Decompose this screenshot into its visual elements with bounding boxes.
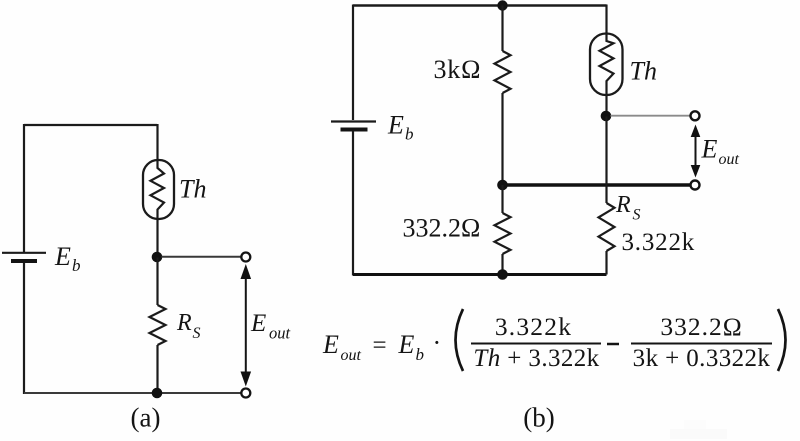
svg-text:332.2Ω: 332.2Ω xyxy=(660,312,742,341)
resistor 3k top lead (b) xyxy=(501,6,503,52)
wire top (b) xyxy=(353,4,607,6)
svg-text:out: out xyxy=(269,324,291,343)
wire thermistor bottom lead to node (b) xyxy=(605,94,607,116)
svg-text:out: out xyxy=(719,151,740,168)
wire left vertical upper (b) xyxy=(352,5,354,121)
svg-text:b: b xyxy=(416,345,425,364)
svg-text:S: S xyxy=(193,325,201,342)
battery E_b (b) long plate xyxy=(331,120,376,122)
svg-text:Th + 3.322k: Th + 3.322k xyxy=(473,345,599,372)
equation fraction 2 bar xyxy=(631,343,772,345)
svg-text:Th: Th xyxy=(179,175,206,204)
wire top (a) xyxy=(24,124,157,126)
node junction dot right branch (b) xyxy=(601,111,612,122)
svg-text:3.322k: 3.322k xyxy=(495,312,572,341)
svg-text:b: b xyxy=(405,125,414,144)
svg-text:3k + 0.3322k: 3k + 0.3322k xyxy=(633,345,771,372)
equation fraction 1 bar xyxy=(471,343,601,345)
output terminal circle top (a) xyxy=(241,253,250,262)
wire left vertical lower (a) xyxy=(23,263,25,394)
wire node to output terminal top (a) xyxy=(162,256,241,258)
resistor 332.2 bottom lead (b) xyxy=(501,254,503,275)
wire thermistor top lead (b) xyxy=(605,5,607,34)
output terminal circle bottom (b) xyxy=(691,181,700,190)
resistor 332.2 top lead (b) xyxy=(501,185,503,213)
svg-text:3kΩ: 3kΩ xyxy=(434,55,482,84)
output terminal circle top (b) xyxy=(691,111,700,120)
svg-text:(a): (a) xyxy=(131,403,161,433)
svg-text:b: b xyxy=(72,256,81,275)
thermistor Th (a) oval xyxy=(143,160,174,219)
svg-text:=: = xyxy=(373,332,387,359)
resistor R_S (a) top lead xyxy=(156,258,158,306)
node junction dot middle-left (b) xyxy=(497,180,508,191)
svg-text:R: R xyxy=(176,310,192,336)
resistor R_S (b) bottom lead xyxy=(605,251,607,275)
thermistor Th (b) zigzag element xyxy=(600,35,614,96)
svg-text:E: E xyxy=(250,310,266,337)
node junction dot bottom (a) xyxy=(152,388,163,399)
node junction dot top (b) xyxy=(497,0,507,10)
svg-text:S: S xyxy=(633,207,641,224)
resistor R_S (b) zigzag xyxy=(599,203,615,251)
output terminal circle bottom (a) xyxy=(241,389,250,398)
resistor R_S (b) top lead through crossing xyxy=(605,117,607,204)
thermistor Th (a) zigzag element xyxy=(151,161,165,219)
wire node to output terminal top (b) xyxy=(611,115,691,117)
resistor 332.2 zigzag (b) xyxy=(495,213,511,254)
svg-text:·: · xyxy=(433,328,442,357)
wire bottom (b) xyxy=(353,273,607,276)
E_out arrow (a) double headed xyxy=(245,272,247,379)
svg-text:E: E xyxy=(398,330,415,359)
svg-text:3.322k: 3.322k xyxy=(622,229,696,256)
thermistor Th (b) oval xyxy=(590,34,623,96)
node junction dot upper (a) xyxy=(152,252,163,263)
wire bottom (a) xyxy=(24,392,241,394)
resistor R_S (a) bottom lead xyxy=(156,345,158,393)
battery E_b (a) short thick plate xyxy=(11,259,37,263)
battery E_b (b) short thick plate xyxy=(341,128,368,132)
svg-text:332.2Ω: 332.2Ω xyxy=(403,214,481,243)
resistor R_S (a) zigzag xyxy=(150,305,166,345)
wire thermistor bottom lead to node (a) xyxy=(156,219,158,256)
faint watermark smudge xyxy=(670,429,727,439)
thick wire from middle node to lower output terminal (b) xyxy=(503,183,691,186)
wire left vertical upper (a) xyxy=(23,124,25,252)
svg-text:R: R xyxy=(615,192,631,218)
battery E_b (a) long plate xyxy=(2,252,46,254)
svg-text:E: E xyxy=(322,330,339,359)
resistor 3k bottom lead (b) xyxy=(501,93,503,184)
equation minus sign xyxy=(607,343,619,346)
equation big left parenthesis xyxy=(456,309,464,371)
svg-text:E: E xyxy=(54,242,71,271)
svg-text:E: E xyxy=(387,111,404,140)
wire thermistor top lead (a) xyxy=(156,124,158,161)
E_out arrow (b) double headed xyxy=(695,129,697,172)
svg-text:out: out xyxy=(341,347,362,364)
equation big right parenthesis xyxy=(778,309,786,371)
wire left vertical lower (b) xyxy=(352,131,354,276)
svg-text:E: E xyxy=(701,135,718,164)
svg-text:Th: Th xyxy=(630,57,657,86)
node junction dot bottom (b) xyxy=(497,269,508,280)
resistor 3k zigzag (b) xyxy=(495,51,511,93)
svg-text:(b): (b) xyxy=(523,403,554,433)
